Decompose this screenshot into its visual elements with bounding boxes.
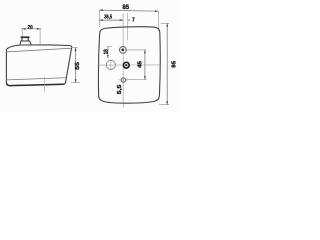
left view: body bottom edge (dark) [7, 84, 64, 86]
right view: dim 36,5 line [99, 19, 123, 21]
svg-text:5,5: 5,5 [117, 85, 123, 95]
right view: dim 36,5 right arrow [120, 19, 123, 21]
right view: left circle vertical tick [110, 60, 112, 71]
right view: dim 45 top arrow [144, 50, 146, 53]
right view: left extension line (lamp left edge) [98, 11, 100, 27]
right view: dark grommet center dot [125, 64, 127, 66]
left view: dim 55 line [75, 48, 77, 83]
svg-text:55: 55 [75, 62, 81, 70]
right view: dim 7 arrows [121, 19, 130, 20]
right view: dim 95 bottom extension tick [160, 104, 169, 106]
left view: dim 20 left arrow [22, 28, 25, 30]
left view: dim 55 bottom extension tick [71, 82, 79, 84]
left view: terminal cap neck [22, 38, 28, 41]
left view: dim 20 right arrow [37, 28, 40, 30]
right view: hole centerline vertical [122, 13, 124, 107]
left view: terminal cap top plate [21, 36, 30, 38]
right view: lamp centerline vertical (x=127.6) [127, 13, 129, 40]
right view: upper hole circle [120, 47, 127, 54]
left view: vertical centerline below body [43, 77, 45, 93]
right view: upper hole center dot [122, 49, 125, 52]
svg-text:95: 95 [172, 61, 178, 68]
right view: dim 95 top arrow [166, 24, 168, 27]
right view: dim 18 line with arrows [107, 46, 109, 58]
left view: dim 55 top arrow [75, 48, 77, 51]
right view: dim 95 line [166, 23, 168, 104]
right view: dim 45 bottom extension line [126, 79, 147, 81]
left view: upper seam line [7, 48, 71, 52]
left view: lower seam line [7, 78, 66, 80]
right view: dim 18 top tick [108, 45, 112, 47]
right view: dim 95 top extension tick [161, 22, 169, 24]
right view: lamp outline [98, 27, 160, 103]
right view: lower mounting hole [121, 78, 125, 82]
right view: upper hole horizontal tick [119, 49, 126, 51]
right view: horizontal centerline [98, 64, 162, 66]
svg-text:18: 18 [103, 49, 109, 54]
right view: right extension line (lamp right edge) [158, 12, 160, 29]
right view: lower hole horizontal tick [119, 79, 129, 81]
right view: dim 85 line [99, 10, 158, 11]
right view: dim 45 line [144, 50, 146, 80]
right view: dark grommet circle [123, 62, 129, 68]
svg-text:45: 45 [137, 61, 143, 68]
svg-text:7: 7 [132, 18, 135, 24]
right view: dim 95 bottom arrow [166, 101, 168, 104]
left view: dimension 20 line [21, 28, 41, 30]
right view: dim 45 top extension line [127, 49, 147, 51]
svg-text:85: 85 [123, 4, 130, 11]
right view: left circle (bulb boss) [106, 60, 115, 69]
left view: body outline [6, 45, 71, 86]
right view: dim 85 left arrow [100, 9, 103, 11]
right view: dim 36,5 left arrow [100, 19, 103, 21]
left view: terminal cap flange [20, 41, 31, 44]
left view: dim 20 right extension line [39, 29, 41, 44]
left view: dim 55 top extension tick [72, 47, 78, 49]
right view: dim 85 right arrow [155, 10, 158, 12]
left view: dim 55 bottom arrow [75, 79, 77, 82]
svg-text:20: 20 [28, 25, 33, 31]
left view: dim 20 left extension line [21, 29, 23, 36]
right view: dim 45 bottom arrow [144, 76, 146, 79]
